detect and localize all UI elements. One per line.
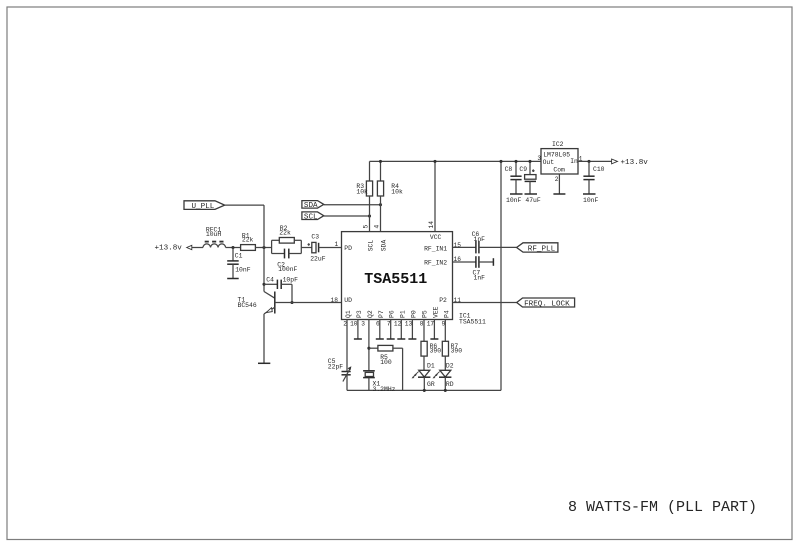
svg-text:390: 390 (430, 348, 442, 355)
ground (C8) (510, 193, 523, 195)
svg-text:P4: P4 (443, 310, 450, 318)
resistor R2 22k with capacitor C2 100nF parallel (272, 225, 302, 273)
net tag U_PLL (184, 201, 225, 211)
wire SDA to R4 line (324, 204, 381, 206)
svg-text:Com: Com (553, 167, 565, 174)
ground (T1 emitter) (258, 362, 270, 364)
svg-text:Q2: Q2 (367, 310, 374, 318)
svg-text:In: In (570, 158, 578, 165)
wire pin 3 chain (368, 320, 370, 371)
svg-text:5: 5 (363, 225, 370, 229)
svg-text:12: 12 (394, 321, 402, 328)
capacitor C1 10nF (227, 248, 251, 279)
open terminator pin 16 (492, 258, 494, 266)
capacitor C5 22pF variable (328, 320, 352, 391)
pin numbers (331, 221, 462, 328)
svg-text:P5: P5 (422, 310, 429, 318)
regulator IC2 LM78L05 (537, 141, 582, 183)
wire base to IC pin 18 (275, 302, 342, 304)
svg-text:PD: PD (344, 245, 352, 252)
capacitor C6 1nF (453, 231, 517, 253)
capacitor C3 22uF polarized (308, 234, 326, 263)
svg-text:U_PLL: U_PLL (192, 203, 215, 211)
svg-text:13: 13 (405, 321, 413, 328)
capacitor C7 1nF (453, 256, 494, 281)
svg-text:1: 1 (335, 241, 339, 248)
svg-text:C3: C3 (311, 234, 319, 241)
svg-text:SCL: SCL (368, 240, 375, 252)
wire IC2 In to +13.8v (578, 160, 612, 162)
LED D2 RD (433, 363, 454, 391)
svg-text:47uF: 47uF (525, 197, 541, 204)
svg-text:1nF: 1nF (474, 274, 486, 281)
wire vertical U_PLL down to node (263, 205, 265, 247)
wire pin 11 to FREQ LOCK (453, 302, 517, 304)
svg-text:4: 4 (374, 225, 381, 229)
LED D1 GR (412, 363, 435, 391)
node rail junction (499, 160, 502, 163)
svg-text:Q1: Q1 (345, 310, 352, 318)
svg-text:D2: D2 (446, 363, 454, 370)
svg-text:22k: 22k (242, 236, 254, 243)
capacitor C8 10nF (505, 161, 522, 204)
ground (C1) (227, 278, 239, 280)
svg-text:10pF: 10pF (283, 277, 299, 284)
ground stub pin 7 (387, 320, 395, 340)
resistor R3 10k (356, 161, 372, 231)
svg-text:P3: P3 (356, 310, 363, 318)
wire U_PLL tag to vertical (225, 204, 264, 206)
node R4 rail junction (379, 160, 382, 163)
node C8 rail junction (514, 160, 517, 163)
svg-text:BC546: BC546 (238, 302, 257, 309)
svg-text:RD: RD (446, 381, 454, 388)
wire RFC1 to R1 (226, 247, 241, 249)
ground stub pin 12 (397, 320, 405, 340)
svg-text:P1: P1 (400, 310, 407, 318)
wire node down to transistor collector (263, 248, 265, 292)
svg-text:RF_PLL: RF_PLL (528, 245, 556, 253)
svg-text:UD: UD (344, 297, 352, 304)
svg-text:390: 390 (451, 348, 463, 355)
svg-text:LM78L05: LM78L05 (543, 152, 570, 159)
net tag SDA (302, 201, 324, 210)
capacitor C9 47uF polarized (519, 161, 541, 204)
svg-text:22k: 22k (279, 229, 291, 236)
node +13.8v (right supply arrow) (612, 159, 649, 167)
svg-text:+13.8v: +13.8v (621, 159, 649, 167)
svg-text:100: 100 (380, 359, 392, 366)
svg-text:TSA5511: TSA5511 (459, 318, 486, 325)
inductor RFC1 10uH (203, 227, 226, 248)
wire IC2 com pin 2 (558, 174, 560, 194)
wire C3 to IC pin 1 (319, 247, 342, 249)
pin labels bottom row (345, 306, 450, 318)
ground stub pin 6 (376, 320, 384, 340)
node C10 junction (587, 160, 590, 163)
svg-text:10nF: 10nF (583, 197, 599, 204)
svg-text:10: 10 (350, 321, 358, 328)
wire bottom rail (347, 389, 501, 391)
wire SCL to R3 line (324, 215, 370, 217)
wire LED supply vertical (500, 161, 502, 390)
svg-text:P0: P0 (411, 310, 418, 318)
svg-text:17: 17 (427, 321, 435, 328)
capacitor C10 10nF (583, 161, 605, 204)
svg-text:22uF: 22uF (310, 255, 326, 262)
svg-text:C9: C9 (519, 166, 527, 173)
wire VCC pin 14 (434, 161, 436, 231)
svg-text:1nF: 1nF (474, 236, 486, 243)
node C9 rail junction (528, 160, 531, 163)
crystal X1 3.2MHz (363, 371, 396, 393)
svg-text:SCL: SCL (304, 213, 318, 221)
svg-text:10k: 10k (391, 189, 403, 196)
svg-text:VEE: VEE (432, 306, 439, 318)
ground (IC2 com) (553, 193, 565, 195)
svg-text:RF_IN1: RF_IN1 (424, 246, 447, 253)
svg-text:3: 3 (361, 321, 365, 328)
svg-text:C10: C10 (593, 166, 605, 173)
node junction C1 (231, 246, 234, 249)
transistor T1 BC546 (238, 292, 275, 364)
svg-text:8: 8 (420, 321, 424, 328)
svg-text:10nF: 10nF (235, 267, 251, 274)
resistor R4 10k (377, 161, 403, 231)
svg-text:14: 14 (428, 221, 435, 229)
svg-text:+13.8v: +13.8v (155, 245, 183, 253)
svg-text:IC2: IC2 (552, 141, 564, 148)
svg-text:C4: C4 (266, 277, 274, 284)
svg-text:TSA5511: TSA5511 (364, 271, 427, 288)
svg-text:10uH: 10uH (206, 231, 222, 238)
node U_PLL junction (262, 246, 265, 249)
ground stub pin 13 (408, 320, 416, 340)
wire R2 block to C3 (301, 247, 312, 249)
svg-text:RF_IN2: RF_IN2 (424, 260, 447, 267)
svg-text:C1: C1 (235, 252, 243, 259)
op-amp U1 : IC1 TSA5511 box (342, 232, 487, 326)
svg-text:P7: P7 (378, 310, 385, 318)
resistor R7 390 (442, 320, 462, 371)
net tag SCL (302, 212, 324, 221)
capacitor C4 10pF (264, 277, 298, 303)
resistor R1 22k (241, 232, 256, 250)
svg-text:D1: D1 (427, 363, 435, 370)
svg-text:VCC: VCC (430, 234, 442, 241)
svg-text:SDA: SDA (304, 202, 318, 210)
svg-text:Out: Out (543, 159, 555, 166)
ground stub pin 10 (354, 320, 362, 340)
node SDA junction (379, 203, 382, 206)
node D1 rail junction (423, 389, 426, 392)
wire top rail VCC (370, 160, 542, 162)
node D2 rail junction (444, 389, 447, 392)
ground stub pin 17 (430, 320, 438, 340)
svg-text:22pF: 22pF (328, 364, 344, 371)
svg-text:C8: C8 (505, 166, 513, 173)
ground (C10) (583, 193, 596, 195)
svg-text:10nF: 10nF (506, 197, 522, 204)
resistor R6 390 (421, 320, 441, 371)
node SCL junction (368, 214, 371, 217)
svg-text:8 WATTS-FM (PLL PART): 8 WATTS-FM (PLL PART) (568, 499, 757, 516)
svg-text:10k: 10k (356, 189, 368, 196)
wire R1 to R2 node (255, 247, 271, 249)
net tag RF_PLL (517, 243, 558, 254)
svg-text:P2: P2 (439, 297, 447, 304)
node base junction (290, 301, 293, 304)
net tag FREQ. LOCK (517, 298, 575, 308)
svg-text:FREQ. LOCK: FREQ. LOCK (524, 300, 570, 308)
ground (C9) (525, 193, 538, 195)
wire supply to RFC1 (192, 247, 203, 249)
resistor R5 100 (369, 345, 403, 390)
svg-text:2: 2 (555, 176, 559, 183)
svg-text:3: 3 (537, 155, 541, 162)
node R5 junction (367, 347, 370, 350)
svg-text:SDA: SDA (381, 240, 388, 252)
svg-text:100nF: 100nF (278, 266, 297, 273)
svg-text:P6: P6 (389, 310, 396, 318)
node VCC rail junction (433, 160, 436, 163)
svg-text:GR: GR (427, 381, 435, 388)
node C4 branch (262, 283, 265, 286)
svg-text:18: 18 (331, 297, 339, 304)
svg-text:3.2MHz: 3.2MHz (373, 386, 396, 393)
node +13.8v (left supply arrow) (155, 245, 192, 253)
